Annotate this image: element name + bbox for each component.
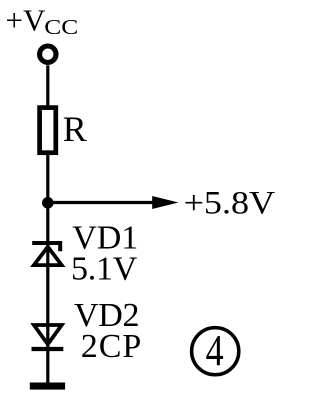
ground bbox=[30, 383, 65, 390]
svg-text:5.1V: 5.1V bbox=[71, 250, 138, 287]
zener diode VD1 cathode bar bbox=[32, 243, 60, 251]
wire circle to resistor bbox=[46, 65, 49, 107]
zener diode VD1 triangle bbox=[34, 247, 62, 265]
svg-text:+V: +V bbox=[6, 3, 46, 38]
resistor R1 bbox=[40, 108, 56, 153]
svg-text:2CP: 2CP bbox=[81, 328, 142, 365]
svg-text:+5.8V: +5.8V bbox=[184, 186, 276, 222]
diode VD2 cathode bar bbox=[32, 347, 64, 351]
arrowhead output bbox=[152, 196, 178, 209]
figure number circle 4 bbox=[192, 328, 239, 375]
wire resistor to ground bbox=[46, 155, 49, 385]
svg-text:4: 4 bbox=[206, 326, 224, 375]
svg-text:R: R bbox=[63, 109, 87, 149]
diode VD2 triangle bbox=[34, 325, 62, 344]
node junction dot bbox=[42, 197, 54, 209]
terminal circle bbox=[40, 46, 56, 62]
svg-text:CC: CC bbox=[44, 15, 78, 39]
wire node to arrow bbox=[48, 201, 156, 204]
label +Vcc bbox=[6, 3, 79, 39]
